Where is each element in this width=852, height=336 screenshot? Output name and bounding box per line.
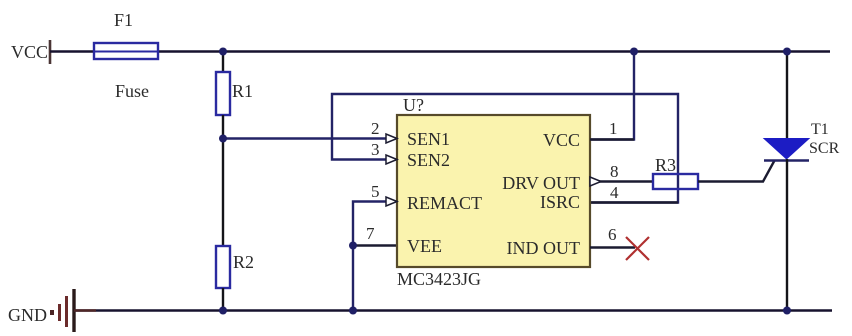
pin 3 arrow (386, 155, 397, 164)
svg-text:7: 7 (366, 224, 375, 243)
svg-text:DRV OUT: DRV OUT (502, 173, 580, 193)
pin 6 wire (590, 246, 635, 249)
wire DRV OUT pin (590, 180, 654, 182)
svg-text:VCC: VCC (543, 130, 580, 150)
pin 1 wire stub (590, 138, 634, 140)
op-amp U1 MC3423JG body (397, 95, 590, 289)
wire ISRC pin (590, 201, 678, 203)
svg-text:VCC: VCC (11, 42, 48, 62)
wire divider vertical middle (222, 115, 224, 247)
fuse F1 (94, 10, 158, 101)
svg-text:8: 8 (610, 162, 619, 181)
svg-text:F1: F1 (114, 10, 133, 30)
svg-text:SEN2: SEN2 (407, 150, 450, 170)
wire node divider to SEN1 (223, 137, 397, 139)
junction top rail at U1 VCC (630, 48, 638, 56)
junction top rail at SCR (783, 48, 791, 56)
junction bottom rail at divider (219, 307, 227, 315)
wire divider vertical lower (222, 288, 224, 310)
svg-text:IND OUT: IND OUT (507, 238, 581, 258)
svg-text:SEN1: SEN1 (407, 129, 450, 149)
U1 pin labels right (502, 130, 580, 258)
junction VEE node (349, 242, 357, 250)
wire SCR anode (786, 51, 788, 138)
svg-text:5: 5 (371, 182, 380, 201)
svg-text:T1: T1 (811, 121, 829, 138)
svg-text:4: 4 (610, 183, 619, 202)
svg-text:Fuse: Fuse (115, 81, 149, 101)
transistor T1 SCR (764, 121, 840, 161)
svg-text:3: 3 (371, 140, 380, 159)
wire REMACT / VEE to ground (353, 202, 397, 311)
pin 2 arrow (386, 134, 397, 143)
svg-text:SCR: SCR (809, 140, 840, 157)
wire R3 to SCR gate (698, 161, 775, 182)
pin 8 arrow (590, 177, 601, 186)
wire top rail (50, 50, 830, 52)
svg-text:6: 6 (608, 225, 617, 244)
svg-text:GND: GND (8, 305, 47, 325)
junction bottom rail at VEE (349, 307, 357, 315)
svg-text:MC3423JG: MC3423JG (397, 269, 481, 289)
pin 5 arrow (386, 197, 397, 206)
svg-text:REMACT: REMACT (407, 193, 482, 213)
svg-text:ISRC: ISRC (540, 192, 580, 212)
junction bottom rail at SCR (783, 307, 791, 315)
resistor R1 (216, 72, 253, 115)
junction top rail at divider (219, 48, 227, 56)
resistor R3 (653, 155, 698, 189)
svg-text:VEE: VEE (407, 236, 442, 256)
wire VEE pin (353, 244, 397, 246)
wire ground stub (74, 309, 96, 312)
junction divider node (219, 135, 227, 143)
svg-text:R2: R2 (233, 252, 254, 272)
svg-text:1: 1 (609, 119, 618, 138)
wire SCR cathode (786, 159, 788, 310)
no-ERC marker pin 6 (626, 237, 649, 260)
wire bottom rail (74, 309, 832, 312)
resistor R2 (216, 246, 254, 288)
wire divider vertical upper (222, 51, 224, 73)
svg-text:R3: R3 (655, 155, 676, 175)
wire VCC pin to top rail (590, 51, 634, 140)
wire SEN2 riser (332, 94, 678, 203)
svg-text:U?: U? (403, 95, 424, 115)
svg-text:R1: R1 (232, 81, 253, 101)
power port VCC (11, 40, 50, 64)
U1 pin labels left (407, 129, 482, 256)
svg-text:2: 2 (371, 119, 380, 138)
power port GND (8, 289, 74, 332)
